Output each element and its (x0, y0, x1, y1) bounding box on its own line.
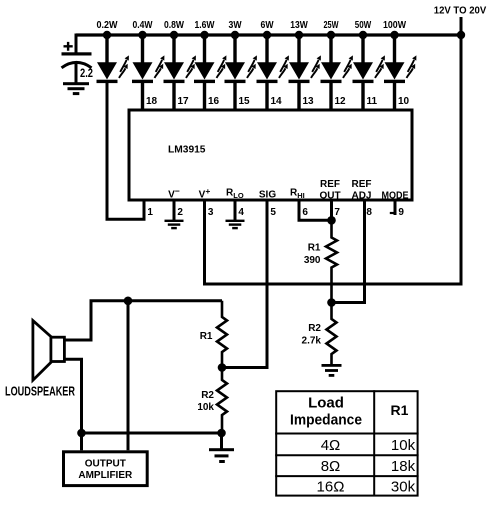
node: right rail junction (217, 429, 226, 438)
svg-text:16Ω: 16Ω (317, 479, 345, 496)
svg-text:5: 5 (270, 207, 276, 218)
wire: LED4 cathode to top pin 16 (203, 83, 206, 110)
node: rail junction LED3 (170, 31, 178, 39)
svg-text:R1: R1 (308, 243, 321, 254)
svg-text:6W: 6W (261, 20, 274, 31)
node: REF OUT junction (327, 216, 336, 225)
node: rail junction LED9 (359, 31, 367, 39)
wire: pin 5 SIG down to divider junction (222, 202, 267, 368)
svg-text:13: 13 (303, 96, 315, 107)
wire: pin 3 V+ to supply line (205, 17, 462, 284)
wire: LED9 anode lead (361, 35, 364, 63)
LED 100W (384, 55, 416, 83)
svg-text:LM3915: LM3915 (168, 144, 206, 156)
wire: LED5 anode lead (233, 35, 236, 63)
LED 1.6W (194, 55, 226, 83)
svg-text:3W: 3W (229, 20, 242, 31)
svg-text:R1: R1 (200, 331, 213, 342)
node: rail junction LED2 (138, 31, 146, 39)
svg-text:50W: 50W (355, 20, 372, 31)
wire: LED10 anode lead (393, 35, 396, 63)
wire: speaker top terminal to signal rail (64, 301, 222, 340)
svg-text:12: 12 (335, 96, 347, 107)
wire: LED10 cathode to top pin 10 (393, 83, 396, 110)
svg-text:AMPLIFIER: AMPLIFIER (78, 470, 133, 481)
wire: LED4 anode lead (203, 35, 206, 63)
svg-text:SIG: SIG (259, 190, 276, 201)
op-amp U1 LM3915 body (129, 110, 412, 200)
svg-text:390: 390 (304, 255, 321, 266)
LED 0.8W (164, 55, 196, 83)
wire: LED2 cathode to top pin 18 (141, 83, 144, 110)
resistor R2 2.7k (327, 303, 337, 365)
svg-text:0.8W: 0.8W (164, 20, 184, 31)
resistor R2 10k (217, 368, 227, 434)
svg-text:MODE: MODE (382, 191, 409, 202)
svg-text:4Ω: 4Ω (321, 437, 341, 454)
svg-text:OUT: OUT (319, 191, 340, 202)
svg-text:1.6W: 1.6W (195, 20, 215, 31)
svg-text:R1: R1 (391, 402, 409, 418)
wire: LED5 cathode to top pin 15 (233, 83, 236, 110)
wire: signal rail to output amplifier (127, 301, 130, 451)
svg-text:0.4W: 0.4W (133, 20, 153, 31)
wire: pin 9 stub (MODE, n.c.) (394, 202, 397, 216)
wire: supply drop from 12V label to rail (460, 17, 463, 35)
table: load impedance vs R1 (275, 390, 418, 496)
svg-text:12V TO 20V: 12V TO 20V (434, 6, 487, 17)
wire: +V supply rail (76, 33, 461, 36)
wire: left junction to amplifier (80, 433, 83, 450)
LED 50W (353, 55, 385, 83)
svg-text:9: 9 (398, 207, 404, 218)
svg-text:2: 2 (177, 207, 183, 218)
wire: LED2 anode lead (141, 35, 144, 63)
wire: pin 2 stub (173, 202, 176, 221)
svg-text:LOUDSPEAKER: LOUDSPEAKER (5, 384, 75, 399)
node: divider junction (218, 363, 227, 372)
svg-text:11: 11 (367, 96, 378, 107)
svg-text:10k: 10k (197, 402, 214, 413)
node: left rail junction (77, 429, 86, 438)
wire: ground stub (220, 433, 223, 449)
wire: pin 7 stub (330, 202, 333, 221)
svg-text:10k: 10k (391, 437, 416, 454)
wire: LED1 anode lead (105, 35, 108, 63)
wire: LED8 anode lead (329, 35, 332, 63)
svg-text:R2: R2 (201, 390, 214, 401)
wire: LED7 cathode to top pin 13 (297, 83, 300, 110)
svg-text:OUTPUT: OUTPUT (85, 459, 126, 470)
svg-text:Impedance: Impedance (290, 411, 362, 428)
node: supply junction on rail (457, 31, 465, 39)
svg-text:10: 10 (398, 96, 410, 107)
node: rail junction LED6 (263, 31, 271, 39)
node: rail junction LED4 (200, 31, 208, 39)
svg-text:8Ω: 8Ω (321, 458, 341, 475)
node: R1/R2 junction (327, 298, 336, 307)
LED 25W (321, 55, 353, 83)
LED 6W (257, 55, 289, 83)
ground: output common (209, 448, 234, 463)
svg-text:R2: R2 (308, 323, 321, 334)
wire: pin 4 stub (234, 202, 237, 221)
wire: LED8 cathode to top pin 12 (329, 83, 332, 110)
svg-text:2.7k: 2.7k (302, 336, 322, 347)
svg-text:4: 4 (238, 207, 244, 218)
svg-text:1: 1 (147, 207, 153, 218)
node: rail junction LED7 (295, 31, 303, 39)
svg-text:REF: REF (320, 179, 340, 190)
svg-text:REF: REF (352, 179, 372, 190)
output amplifier box (64, 452, 148, 486)
svg-text:25W: 25W (324, 20, 339, 31)
svg-text:100W: 100W (383, 20, 406, 31)
svg-text:2.2: 2.2 (80, 66, 93, 80)
ground: R2 2.7k (322, 364, 342, 377)
wire: amplifier ground rail (82, 432, 222, 435)
node: rail junction LED1 (103, 31, 111, 39)
svg-text:ADJ: ADJ (351, 191, 371, 202)
node: rail junction LED5 (231, 31, 239, 39)
svg-text:14: 14 (271, 96, 283, 107)
wire: LED3 cathode to top pin 17 (172, 83, 175, 110)
svg-text:Load: Load (308, 395, 344, 412)
wire: LED9 cathode to top pin 11 (361, 83, 364, 110)
svg-text:15: 15 (239, 96, 251, 107)
ground: pin 4 (RLO) (226, 220, 245, 230)
svg-text:6: 6 (302, 207, 308, 218)
node: rail junction LED8 (327, 31, 335, 39)
capacitor 2.2uF bypass (62, 34, 92, 85)
svg-text:0.2W: 0.2W (97, 20, 119, 31)
svg-text:7: 7 (334, 207, 340, 218)
svg-text:3: 3 (208, 207, 214, 218)
node: signal rail junction (124, 297, 133, 306)
resistor R1 (divider, see table) (217, 301, 227, 368)
wire: LED3 anode lead (172, 35, 175, 63)
loudspeaker cone (33, 321, 51, 381)
wire: LED7 anode lead (297, 35, 300, 63)
LED 13W (289, 55, 321, 83)
ground: capacitor (63, 82, 89, 95)
svg-text:13W: 13W (290, 20, 308, 31)
LED 0.2W (97, 55, 129, 83)
wire: LED1 cathode down-around to pin 1 (107, 83, 144, 219)
node: rail junction LED10 (390, 31, 398, 39)
wire: speaker bottom terminal (64, 359, 81, 433)
wire: pin 6 RHI to pin 7 (299, 202, 332, 221)
wire: LED6 anode lead (265, 35, 268, 63)
wire: junction to pin 8 REF ADJ (332, 202, 365, 303)
svg-text:17: 17 (178, 96, 190, 107)
svg-text:8: 8 (366, 207, 372, 218)
wire: LED6 cathode to top pin 14 (265, 83, 268, 110)
LED 0.4W (132, 55, 164, 83)
svg-text:30k: 30k (391, 479, 416, 496)
svg-text:18k: 18k (391, 458, 416, 475)
ground: pin 2 (V-) (165, 220, 184, 230)
resistor R1 390 (326, 220, 337, 302)
svg-text:16: 16 (208, 96, 220, 107)
loudspeaker driver (51, 337, 65, 361)
svg-text:18: 18 (146, 96, 158, 107)
LED 3W (225, 55, 257, 83)
